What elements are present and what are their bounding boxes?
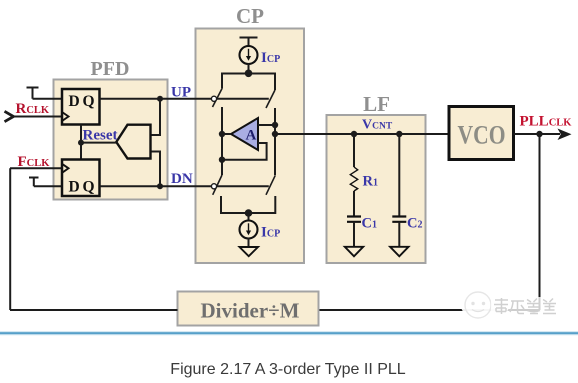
node RCLK input arrow — [5, 111, 63, 121]
flip-flop FF2 — [62, 160, 100, 197]
wire left branch — [221, 107, 223, 175]
switch S2 blade (dummy) — [266, 90, 275, 108]
wire AND gate top input — [151, 99, 160, 135]
wire feedback right vertical — [539, 134, 541, 310]
switch S1 control bubble — [211, 96, 216, 101]
wire reset output — [81, 142, 116, 144]
wire FCLK into FF2 clock — [10, 167, 62, 169]
node DN label — [171, 171, 193, 187]
current source ICP bottom — [240, 221, 258, 239]
svg-text:D: D — [69, 93, 80, 110]
power VDD bar — [240, 38, 258, 47]
capacitor C1 — [347, 217, 361, 222]
wire to C2 — [398, 134, 400, 217]
node CP output junction — [272, 131, 278, 137]
wire feedback to divider — [319, 309, 540, 311]
switch S3 blade (DN) — [213, 175, 222, 195]
wire AND gate bottom input — [151, 152, 160, 187]
svg-text:A: A — [246, 128, 257, 144]
node R1 label — [363, 174, 378, 190]
node VCNT label — [362, 117, 393, 132]
node bridge top junction — [245, 70, 253, 78]
node feedback junction — [219, 157, 225, 163]
svg-text:Q: Q — [83, 179, 95, 196]
node ICP bottom label — [261, 225, 280, 241]
wire reset vertical — [80, 125, 82, 160]
node RCLK label — [16, 101, 50, 117]
CP title — [236, 4, 264, 28]
wire R1 to C1 — [353, 191, 355, 217]
svg-text:CP: CP — [236, 4, 264, 28]
switch S4 blade (dummy) — [266, 175, 275, 195]
switch S3 control bubble — [211, 184, 216, 189]
svg-text:D: D — [69, 179, 80, 196]
node PLLCLK label — [520, 114, 573, 130]
svg-text:Reset: Reset — [83, 128, 118, 144]
wire DN from FF2 Q to CP — [100, 185, 269, 187]
node Reset junction — [78, 140, 84, 146]
wire UP from FF1 Q to CP — [100, 98, 269, 100]
wire current source to bridge — [248, 64, 250, 74]
PFD title — [91, 58, 130, 80]
wire op-amp +input to right branch — [258, 124, 275, 126]
svg-text:Divider÷M: Divider÷M — [200, 298, 299, 322]
resistor R1 — [350, 167, 357, 191]
svg-text:LF: LF — [363, 92, 390, 116]
ground CP — [240, 247, 259, 256]
node DN junction — [157, 183, 163, 189]
node C2 top junction — [396, 131, 402, 137]
ground C2 — [390, 247, 408, 256]
wire C1 to ground — [353, 222, 355, 247]
wire source to ground — [248, 238, 250, 247]
node Reset label — [83, 128, 118, 144]
ground C1 — [345, 247, 363, 256]
gate U2 AND (reset) — [116, 125, 150, 159]
wire right branch — [274, 108, 276, 175]
wire CP output to VCO (VCNT line) — [275, 133, 449, 135]
svg-text:VCO: VCO — [458, 121, 506, 150]
node ICP top label — [261, 50, 280, 66]
wire feedback left vertical — [9, 168, 11, 310]
separator line — [0, 331, 578, 335]
node right branch input junction — [272, 122, 278, 128]
svg-text:PFD: PFD — [91, 58, 130, 80]
wire bridge to bottom source — [248, 213, 250, 221]
svg-text:Figure 2.17 A 3-order Type II: Figure 2.17 A 3-order Type II PLL — [170, 361, 406, 378]
wire to R1 — [353, 134, 355, 167]
caption — [170, 361, 406, 378]
node UP junction — [157, 96, 163, 102]
current source ICP top — [240, 46, 258, 64]
divider block — [178, 292, 319, 326]
LF block — [327, 115, 426, 263]
op-amp U1 A — [231, 118, 258, 150]
node left branch output junction — [219, 131, 225, 137]
node PLLCLK junction — [536, 131, 542, 137]
node bridge bottom junction — [245, 209, 253, 217]
svg-text:UP: UP — [171, 85, 191, 101]
wire divider to left — [10, 309, 178, 311]
watermark logo — [461, 292, 559, 320]
flip-flop FF1 — [62, 89, 100, 125]
wire tie-high D2 — [29, 178, 62, 187]
wire tie-high D1 — [27, 88, 63, 99]
node R1 top junction — [351, 131, 357, 137]
wire op-amp output to left branch — [222, 133, 231, 135]
wire top bridge — [222, 74, 275, 91]
VCO U3 — [449, 107, 514, 160]
wire VCO output arrow — [514, 129, 572, 141]
capacitor C2 — [392, 217, 406, 222]
wire C2 to ground — [398, 222, 400, 247]
LF title — [363, 92, 390, 116]
node UP label — [171, 85, 191, 101]
svg-text:Q: Q — [83, 93, 95, 110]
wire op-amp feedback loop — [222, 143, 267, 160]
wire bottom bridge — [221, 196, 275, 213]
svg-text:DN: DN — [171, 171, 193, 187]
node C1 label — [362, 216, 377, 232]
switch S1 blade (UP) — [213, 88, 223, 107]
node FCLK label — [18, 154, 51, 170]
CP block — [196, 29, 305, 264]
node C2 label — [407, 216, 422, 232]
PFD block — [54, 80, 168, 200]
